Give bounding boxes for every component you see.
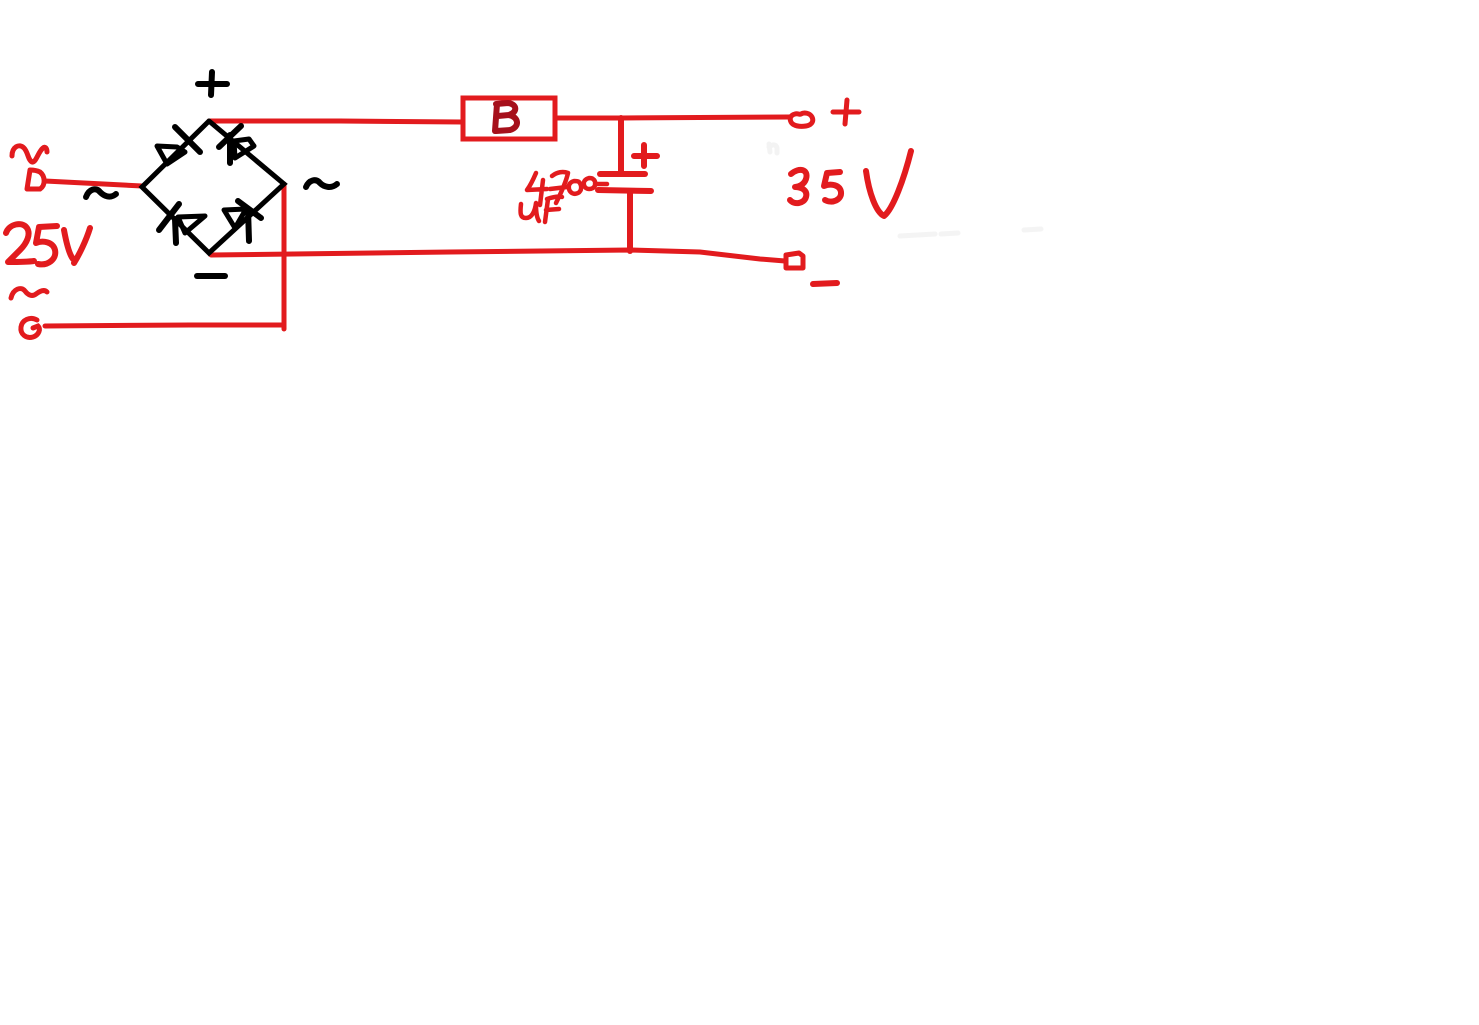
bottom AC input terminal [21, 318, 39, 337]
AC tilde left of bridge (black) [86, 189, 116, 197]
- output terminal [786, 253, 803, 268]
wire: vertical riser from bridge right corner down to bottom AC wire [282, 184, 287, 329]
diode D3 (lower-left) cathode bar [159, 204, 179, 243]
fuse B box [463, 98, 555, 139]
wire: capacitor bottom plate down to bottom rail [627, 192, 633, 251]
bridge diamond outline [142, 121, 284, 253]
diode D1 triangle [157, 146, 185, 164]
wire: left AC input to bridge left corner [45, 181, 142, 186]
diode D4 triangle [224, 209, 246, 228]
value label 4700 [527, 172, 607, 205]
wire: junction drop from + rail to capacitor top plate [618, 118, 624, 171]
+ output plus sign [833, 100, 859, 124]
value label uF [521, 197, 562, 222]
faint eraser smudge near output [769, 144, 1041, 236]
bottom AC tilde (red) [11, 289, 47, 298]
diode D4 (lower-right) cathode bar [238, 201, 261, 241]
label 25V [6, 224, 90, 264]
diode D3 triangle [178, 216, 205, 233]
wire: bottom AC input run to vertical riser [45, 325, 283, 326]
label 35V [790, 151, 911, 216]
diode D2 triangle [234, 139, 254, 158]
wire: fuse B to + output terminal (through capacitor junction) [556, 117, 789, 118]
diode D1 (upper-left) cathode bar [175, 127, 200, 152]
fuse label B [495, 103, 517, 131]
capacitor polarity + sign [634, 145, 657, 166]
diode D2 (upper-right) cathode bar [219, 126, 241, 163]
- output minus sign [813, 283, 837, 284]
bridge + mark (black) [198, 72, 227, 95]
wire: bridge top (+) corner to fuse B [209, 121, 462, 122]
top AC tilde (red) [12, 146, 47, 162]
capacitor C1 top plate [600, 171, 645, 177]
wire: bottom rail from bridge - corner to - output terminal [211, 250, 785, 261]
top AC input terminal [27, 170, 44, 189]
AC tilde right of bridge (black) [306, 180, 337, 187]
bridge - mark (black) [197, 273, 225, 279]
capacitor C1 bottom plate [598, 190, 651, 191]
+ output terminal [790, 113, 813, 126]
